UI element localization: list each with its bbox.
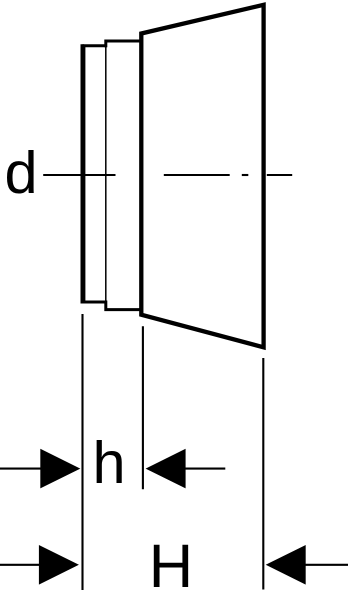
dimension H: left arrowhead [39,545,79,585]
extension line left (at collar edge) [81,314,83,590]
cone body outline [141,5,263,348]
centerline dash 2 [164,174,230,176]
centerline dash 1 [43,174,115,176]
dimension h: left arrowhead [40,449,80,489]
inner edge line (thin) [105,46,107,302]
collar outline (small spigot end) [82,41,142,310]
extension line middle (at cone small end) [142,326,144,489]
extension line right (at cone large end) [262,358,264,590]
dimension h: right arrow shaft [182,468,225,470]
dimension H: right arrowhead [266,545,306,585]
svg-text:h: h [93,429,126,496]
dimension h: left arrow shaft [0,468,44,470]
dimension h: right arrowhead [146,449,186,489]
dimension H: right arrow shaft [302,564,348,566]
svg-text:d: d [5,139,38,206]
centerline dash 3 [267,174,292,176]
svg-text:H: H [149,532,193,600]
centerline dot [242,174,249,176]
dimension H: left arrow shaft [0,564,42,566]
